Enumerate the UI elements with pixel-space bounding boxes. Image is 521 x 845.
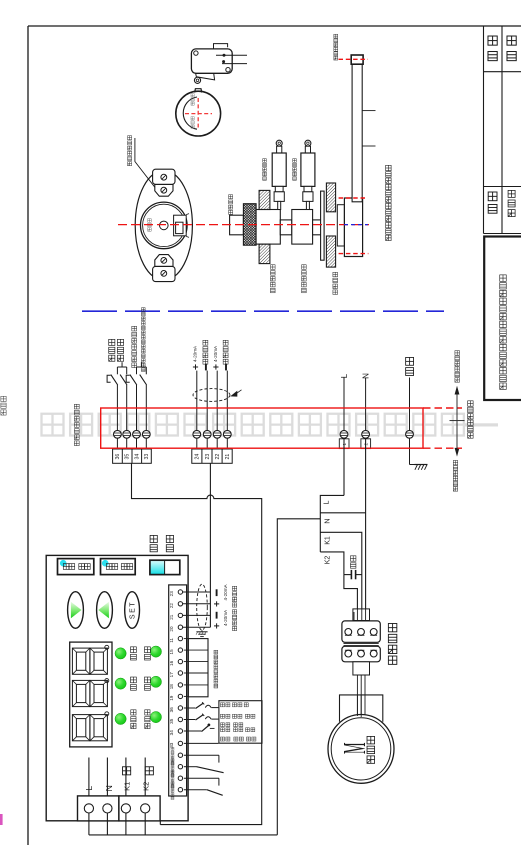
svg-text:23: 23 [205, 454, 211, 460]
terminal circle signal 1 [193, 430, 201, 438]
gear upper hatched [326, 183, 335, 212]
disc plate [321, 191, 325, 260]
svg-text:18: 18 [169, 684, 174, 690]
display digit 1 [72, 648, 89, 674]
label close guan [123, 767, 131, 775]
shield arrow [230, 391, 237, 397]
svg-text:22: 22 [169, 603, 174, 609]
wire K2 to plug [344, 575, 358, 623]
label drive worm wheel [333, 272, 338, 277]
label user wiring part [455, 351, 460, 356]
label fourteen core aviation plug [74, 404, 79, 409]
svg-text:23: 23 [169, 591, 174, 597]
harness K1 row [320, 532, 362, 623]
limit cam lower hatched [259, 244, 270, 264]
terminal circle input 1 [114, 430, 122, 438]
terminal strip box [169, 585, 187, 796]
worm gear crosshatched [243, 204, 256, 246]
shaft left stub [230, 215, 244, 235]
bottom terminal block [78, 796, 119, 821]
harness K2 row [320, 552, 344, 575]
svg-text:4-20mA: 4-20mA [223, 583, 228, 600]
label electric actuator [453, 460, 457, 464]
red terminal box fourteen pin plug [101, 408, 423, 448]
flange body oval [135, 170, 192, 280]
svg-text:34: 34 [134, 454, 140, 460]
ground symbol [409, 438, 411, 464]
drawing border frame [28, 25, 521, 27]
strip terminal 12 [178, 717, 182, 721]
block terminal circle [121, 804, 130, 813]
plug upper connector [342, 621, 380, 642]
seven segment display box [70, 642, 112, 747]
signal wires from strip [183, 591, 211, 593]
shaft section 1 [256, 210, 280, 245]
shaft neck 2 [313, 220, 322, 235]
flange inner tiny label [148, 219, 152, 222]
svg-text:20: 20 [169, 626, 174, 632]
label motor limit cam with leader [128, 136, 132, 140]
terminal circle signal 4 [223, 430, 231, 438]
svg-text:19: 19 [169, 695, 174, 701]
svg-text:33: 33 [144, 454, 150, 460]
strip terminal 7 [178, 659, 182, 663]
capacitor C1 [344, 574, 352, 576]
terminal circle N [362, 430, 370, 438]
SQ1 terminal bracket [214, 44, 228, 49]
input switch contact 1 [116, 367, 118, 374]
motor M circle [328, 715, 394, 784]
strip terminal 15 [178, 753, 182, 757]
shaft section 2 [292, 210, 313, 245]
wires plug to motor [356, 675, 358, 716]
toggle switch on terminal 34 [184, 730, 202, 732]
button set oval [125, 592, 140, 629]
input switch contact 3 [136, 367, 138, 374]
limit cam upper hatched [259, 190, 270, 209]
input wire 4 [145, 385, 147, 430]
SQ1 terminal wire 1 [216, 54, 247, 56]
relay K2 contact [184, 777, 219, 779]
strip terminal 17 [178, 776, 182, 780]
strip terminal 2 [178, 602, 182, 606]
svg-text:K1: K1 [324, 536, 331, 545]
terminal circle input 4 [142, 430, 150, 438]
gear lower hatched [326, 236, 335, 267]
red mark at shaft top [339, 58, 369, 60]
strip terminal 9 [178, 683, 182, 687]
terminal circle input 3 [133, 430, 141, 438]
label open kai [145, 767, 153, 775]
svg-text:35: 35 [125, 454, 131, 460]
svg-text:36: 36 [115, 454, 121, 460]
label gearbox output shaft [334, 34, 338, 38]
4-20mA polarity marks [193, 366, 198, 368]
plug bottom cable clamp [353, 662, 370, 675]
svg-text:L: L [84, 786, 94, 791]
mode switch on terminal 35 [184, 719, 195, 721]
label open limit cam [271, 265, 276, 270]
signal wire 4 [226, 371, 228, 431]
signal wire 1 [196, 371, 198, 431]
wire L down to harness [343, 438, 345, 495]
label manual remote analog [132, 326, 137, 331]
svg-text:36: 36 [169, 707, 174, 713]
svg-text:34: 34 [169, 730, 174, 736]
label close limit switch [293, 159, 297, 163]
strip terminal 1 [178, 590, 182, 594]
input wire 1 [116, 385, 118, 430]
terminal circle input 2 [123, 430, 131, 438]
svg-text:4-20mA: 4-20mA [193, 345, 198, 362]
svg-text:21: 21 [225, 454, 231, 460]
signal terminal number cells [192, 449, 232, 463]
SQ1 mount hole 2 [226, 68, 230, 72]
magenta edge mark [0, 814, 3, 825]
shield ellipse around signal wires [193, 389, 230, 402]
strip terminal 4 [178, 625, 182, 629]
label jog type [109, 339, 115, 345]
shaft limit switch 2 roller [305, 140, 311, 146]
SQ1 mount hole 1 [194, 51, 198, 55]
SQ1 lever arm [196, 73, 215, 80]
strip terminal 18 [178, 788, 182, 792]
plug lower connector [342, 646, 380, 662]
micro switch SQ1 body [191, 49, 232, 73]
SQ1 roller [194, 77, 200, 83]
full scale calibrate box [58, 559, 94, 575]
label valve switch internal wiring [214, 650, 218, 654]
wires to bottom block [88, 758, 90, 797]
svg-text:4-20mA: 4-20mA [213, 345, 218, 362]
boundary arrow down [456, 421, 458, 449]
flange center hole [160, 221, 169, 230]
label electrical limit feedback pot part [386, 165, 391, 170]
label manual shoudong [150, 535, 157, 542]
flange bottom tab [155, 255, 173, 267]
wire L [343, 378, 345, 431]
svg-text:21: 21 [169, 614, 174, 620]
strip terminal 10 [178, 694, 182, 698]
internal wiring box [188, 639, 208, 697]
label electric control part [468, 401, 473, 406]
switch input pair buses [117, 366, 126, 368]
display digit 2 [72, 680, 89, 706]
zero calibrate box [101, 559, 136, 575]
shaft limit switch 1 roller [276, 140, 282, 146]
svg-text:K2: K2 [141, 782, 150, 791]
gearbox output shaft [352, 59, 362, 202]
input switch contact 4 [145, 367, 147, 374]
svg-text:16: 16 [169, 660, 174, 666]
harness N row [320, 512, 365, 514]
label yonghu user [488, 192, 497, 201]
label auto zidong [166, 535, 173, 542]
terminal circle ground [406, 430, 414, 438]
button down oval [97, 592, 113, 629]
blue centerline overlay at potentiometer [344, 224, 368, 226]
polarity marks at strip [216, 589, 218, 596]
svg-text:K2: K2 [324, 556, 331, 565]
wire signal cable down [209, 463, 211, 627]
strip terminal 6 [178, 648, 182, 652]
manual auto slide switch [150, 560, 165, 574]
flange top tab [153, 169, 175, 184]
wire terminal 33 to label box [184, 742, 219, 744]
harness N wire to left [277, 519, 320, 835]
label gong-ye pages [488, 36, 497, 45]
boundary arrow up [456, 392, 458, 420]
label switch control note [142, 308, 146, 312]
strip terminal 3 [178, 613, 182, 617]
input switch contact 2 [126, 367, 128, 374]
svg-text:35: 35 [169, 718, 174, 724]
signal wire 2 [206, 371, 208, 431]
label motor plug dianjichatou [388, 623, 396, 631]
green LEDs and labels [115, 648, 126, 659]
wires below block [88, 813, 90, 835]
boundary tick [450, 420, 465, 422]
motor housing [340, 695, 383, 722]
shaft neck 1 [280, 220, 292, 235]
SQ1 terminal wire 2 [222, 63, 247, 65]
svg-text:17: 17 [169, 672, 174, 678]
svg-text:4-20mA: 4-20mA [223, 609, 228, 626]
plug top cable clamp [353, 609, 370, 621]
wire into motor [360, 695, 362, 717]
label close limit cam [302, 265, 307, 270]
strip terminal 13 [178, 729, 182, 733]
red position marks at pot [339, 197, 367, 199]
terminal circle signal 3 [213, 430, 221, 438]
wire N down [365, 438, 367, 623]
main red centerline [118, 224, 369, 226]
control board outline [46, 555, 188, 820]
shield ellipse at strip [197, 584, 208, 630]
block terminal circle [84, 804, 93, 813]
cam bump [195, 89, 202, 93]
label open limit switch [263, 159, 267, 163]
input wire 3 [136, 385, 138, 430]
cam inner profile arc [183, 97, 197, 129]
terminal circle signal 2 [203, 430, 211, 438]
svg-text:15: 15 [169, 649, 174, 655]
mode switch on terminal 36 [184, 707, 195, 709]
pot mounting bracket [337, 205, 344, 246]
shaft limit switch 1 body [277, 146, 282, 153]
svg-text:22: 22 [215, 454, 221, 460]
blue dashed separator line [82, 310, 444, 312]
strip terminal 5 [178, 636, 182, 640]
display digit 3 [72, 715, 89, 741]
bottom bus to N [89, 834, 277, 836]
svg-text:N: N [104, 785, 114, 791]
watermark company text [42, 414, 64, 436]
svg-text:33: 33 [169, 742, 174, 748]
svg-text:L: L [340, 373, 349, 378]
title block cells [483, 26, 485, 234]
cam crosshair centerline [185, 113, 212, 115]
label ground jiedi [406, 357, 414, 365]
signal wire 3 [216, 371, 218, 431]
svg-text:SET: SET [130, 601, 137, 619]
svg-text:24: 24 [195, 454, 201, 460]
label capacitor dianrong [350, 556, 355, 561]
title box fengfa diagram name [484, 237, 521, 401]
block terminal circle [103, 804, 112, 813]
svg-text:L: L [321, 500, 330, 504]
harness L step [320, 495, 344, 552]
potentiometer body [344, 198, 362, 257]
wire switch cable down with hop [132, 463, 262, 824]
label open close type [117, 339, 123, 345]
flange screws [161, 174, 167, 180]
button up oval [68, 592, 84, 629]
label motor diandongji [367, 736, 375, 743]
shield earth symbol [201, 630, 203, 631]
relay K1 contact [184, 754, 219, 756]
flange bearing circles [141, 202, 188, 249]
label connect worm [229, 195, 233, 199]
terminal circle L [340, 430, 348, 438]
strip terminal 16 [178, 765, 182, 769]
L N number cells [339, 439, 349, 449]
left margin cut label [1, 396, 6, 401]
svg-text:N: N [322, 518, 331, 523]
plug mating faces [344, 642, 379, 644]
cam disc [176, 91, 221, 136]
block terminal circle [141, 804, 150, 813]
strip terminal 8 [178, 671, 182, 675]
mode label box [219, 701, 262, 744]
wire ground [409, 378, 411, 431]
svg-text:11: 11 [169, 638, 174, 643]
cam tiny labels [191, 94, 194, 97]
strip terminal 11 [178, 706, 182, 710]
strip terminal 14 [178, 741, 182, 745]
input wire 2 [126, 385, 128, 430]
input terminal number cells [113, 449, 152, 463]
shaft limit switch 2 body [305, 146, 310, 153]
wire N [365, 378, 367, 431]
svg-text:K1: K1 [122, 782, 131, 791]
flange keyway block [174, 215, 187, 236]
